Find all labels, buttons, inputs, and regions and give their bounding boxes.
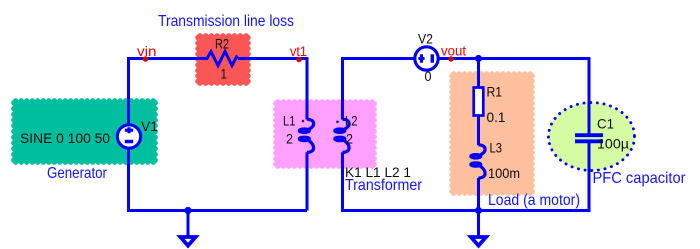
svg-text:Transformer: Transformer <box>345 177 422 194</box>
svg-text:0: 0 <box>425 68 432 84</box>
svg-text:C1: C1 <box>597 116 614 132</box>
svg-text:100µ: 100µ <box>597 136 629 152</box>
svg-text:vin: vin <box>137 43 157 59</box>
svg-text:1: 1 <box>221 66 228 82</box>
svg-text:2: 2 <box>346 131 353 147</box>
svg-text:Load (a motor): Load (a motor) <box>488 192 580 209</box>
svg-text:0.1: 0.1 <box>487 109 506 125</box>
svg-text:V1: V1 <box>141 118 158 134</box>
svg-text:L1: L1 <box>283 113 296 129</box>
svg-text:L2: L2 <box>345 113 358 129</box>
svg-text:V2: V2 <box>418 31 433 47</box>
svg-text:2: 2 <box>286 131 293 147</box>
svg-text:SINE 0 100 50: SINE 0 100 50 <box>20 130 110 146</box>
svg-text:L3: L3 <box>490 140 503 156</box>
svg-text:R2: R2 <box>215 36 229 52</box>
svg-text:vt1: vt1 <box>290 43 307 59</box>
svg-text:Generator: Generator <box>47 165 107 182</box>
svg-text:vout: vout <box>441 43 466 59</box>
svg-text:R1: R1 <box>487 84 503 100</box>
svg-text:Transmission line loss: Transmission line loss <box>158 13 294 30</box>
svg-text:100m: 100m <box>488 165 520 181</box>
svg-text:PFC capacitor: PFC capacitor <box>593 170 686 187</box>
